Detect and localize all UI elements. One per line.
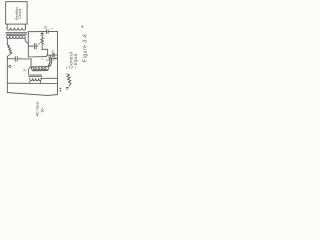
transformer T1 secondary winding <box>7 35 26 38</box>
rectifier circuit label <box>15 6 22 20</box>
tiny labels above <box>66 65 77 69</box>
left vertical lower <box>6 59 8 93</box>
wire E horizontal <box>50 58 58 60</box>
svg-text:60~: 60~ <box>40 106 44 112</box>
wire T1 right jog <box>25 39 28 44</box>
transformer T2 winding <box>30 78 42 80</box>
wire D horizontal <box>42 49 48 55</box>
wire mid-left vertical <box>27 32 29 57</box>
label left of R2 <box>37 43 41 45</box>
wire with capacitor C4 <box>28 45 38 47</box>
label above C2 <box>44 26 48 29</box>
small marks <box>22 68 26 72</box>
wire bottom of left loop <box>7 58 31 60</box>
svg-text:s: s <box>41 58 44 60</box>
rectifier circuit block <box>6 2 27 24</box>
control resistor squiggle <box>67 74 71 87</box>
svg-text:85: 85 <box>44 26 48 29</box>
wire top rail <box>28 31 57 33</box>
right rail vertical <box>56 32 58 95</box>
marks below squiggle <box>66 88 68 89</box>
capacitor C4 plates <box>34 44 36 49</box>
svg-text:AC Input: AC Input <box>36 102 40 117</box>
wire B horizontal <box>28 56 46 58</box>
capacitor C1 plates <box>15 57 17 62</box>
svg-text:1: 1 <box>49 27 53 29</box>
lamp / circle <box>9 65 11 67</box>
svg-text:ξ2: ξ2 <box>45 58 49 61</box>
T2 pins <box>30 81 41 83</box>
AC input label <box>36 102 45 117</box>
wire box pin left <box>6 24 8 27</box>
capacitor C3 plates in mid branch <box>41 34 43 35</box>
variac L1 loops <box>28 66 48 74</box>
svg-text:Circuit: Circuit <box>18 9 22 19</box>
transformer T1 primary winding <box>7 28 26 31</box>
capacitor C2 plates in top rail <box>47 30 49 34</box>
transformer T2 core <box>29 75 42 76</box>
control input label <box>68 52 79 69</box>
junction dot <box>53 59 54 60</box>
wire winding to right rail <box>41 77 58 79</box>
svg-text:Input: Input <box>73 53 79 65</box>
terminal dots right <box>60 88 62 90</box>
speck above rail right <box>49 27 53 29</box>
svg-text:3ξ: 3ξ <box>22 68 26 72</box>
wire mid branch <box>41 32 43 50</box>
stray speck <box>81 26 83 28</box>
wire left vertical <box>6 39 8 45</box>
AC input wire <box>7 93 57 96</box>
resistor R2 <box>41 38 44 45</box>
labels middle cluster <box>41 50 58 62</box>
svg-text:0: 0 <box>66 65 68 69</box>
svg-text:18: 18 <box>51 50 55 53</box>
wire down to T2 <box>30 59 32 68</box>
arrowhead <box>48 65 51 68</box>
transformer T1 core <box>6 33 27 35</box>
variac arrow arc <box>48 56 51 67</box>
svg-text:R: R <box>37 43 41 45</box>
rheostat R1 <box>7 45 12 53</box>
variac axis wire <box>33 69 49 71</box>
bottom rail <box>7 82 57 84</box>
capacitor C5 plates <box>53 53 54 57</box>
svg-text:Figure 3-6: Figure 3-6 <box>82 34 88 62</box>
wire C horizontal <box>46 54 57 56</box>
figure caption <box>82 34 88 62</box>
wire box pin right <box>24 24 26 27</box>
